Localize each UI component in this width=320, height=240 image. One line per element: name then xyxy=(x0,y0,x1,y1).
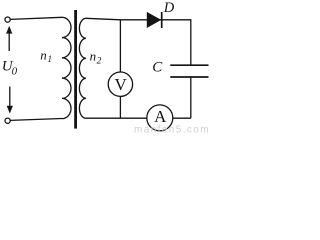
svg-text:0: 0 xyxy=(12,65,18,77)
svg-text:A: A xyxy=(154,107,167,126)
arrow down (U0 bottom) xyxy=(7,87,13,114)
svg-text:D: D xyxy=(163,0,175,16)
capacitor C top plate xyxy=(170,64,208,66)
wire bottom-left lead from primary xyxy=(10,119,62,121)
svg-text:n: n xyxy=(40,47,47,62)
terminal top-left xyxy=(5,17,10,22)
svg-text:manfen5.com: manfen5.com xyxy=(134,125,210,135)
transformer core xyxy=(74,10,77,129)
ammeter A circle xyxy=(147,105,173,131)
capacitor C bottom plate xyxy=(170,76,208,78)
svg-text:1: 1 xyxy=(47,55,52,65)
svg-text:n: n xyxy=(90,49,97,64)
inductor primary winding n1 xyxy=(62,17,71,118)
svg-text:2: 2 xyxy=(97,56,102,66)
wire V branch lower xyxy=(119,96,121,118)
wire right side lower xyxy=(190,78,192,119)
wire bottom row xyxy=(86,117,191,119)
svg-text:C: C xyxy=(152,59,163,75)
wire secondary top to diode and right corner xyxy=(86,18,191,20)
wire top-left lead to primary xyxy=(10,17,62,19)
diode D triangle xyxy=(147,13,160,28)
svg-text:V: V xyxy=(115,75,128,94)
wire right side upper xyxy=(190,19,192,65)
diode D cathode bar xyxy=(161,12,163,28)
inductor secondary winding n2 xyxy=(79,18,86,118)
voltmeter V circle xyxy=(108,72,132,96)
wire V branch upper xyxy=(119,20,121,72)
terminal bottom-left xyxy=(5,118,10,123)
arrow up (U0 top) xyxy=(6,26,12,51)
